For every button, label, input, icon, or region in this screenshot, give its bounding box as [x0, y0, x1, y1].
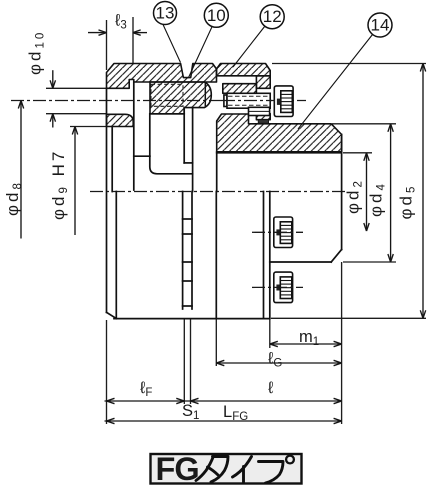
svg-text:ℓ: ℓ: [268, 379, 273, 397]
svg-text:10: 10: [207, 6, 226, 25]
svg-text:12: 12: [263, 7, 282, 26]
svg-text:13: 13: [156, 4, 175, 23]
svg-text:φd9 H7: φd9 H7: [49, 149, 70, 220]
svg-text:FG: FG: [156, 451, 199, 487]
svg-text:14: 14: [371, 16, 390, 35]
